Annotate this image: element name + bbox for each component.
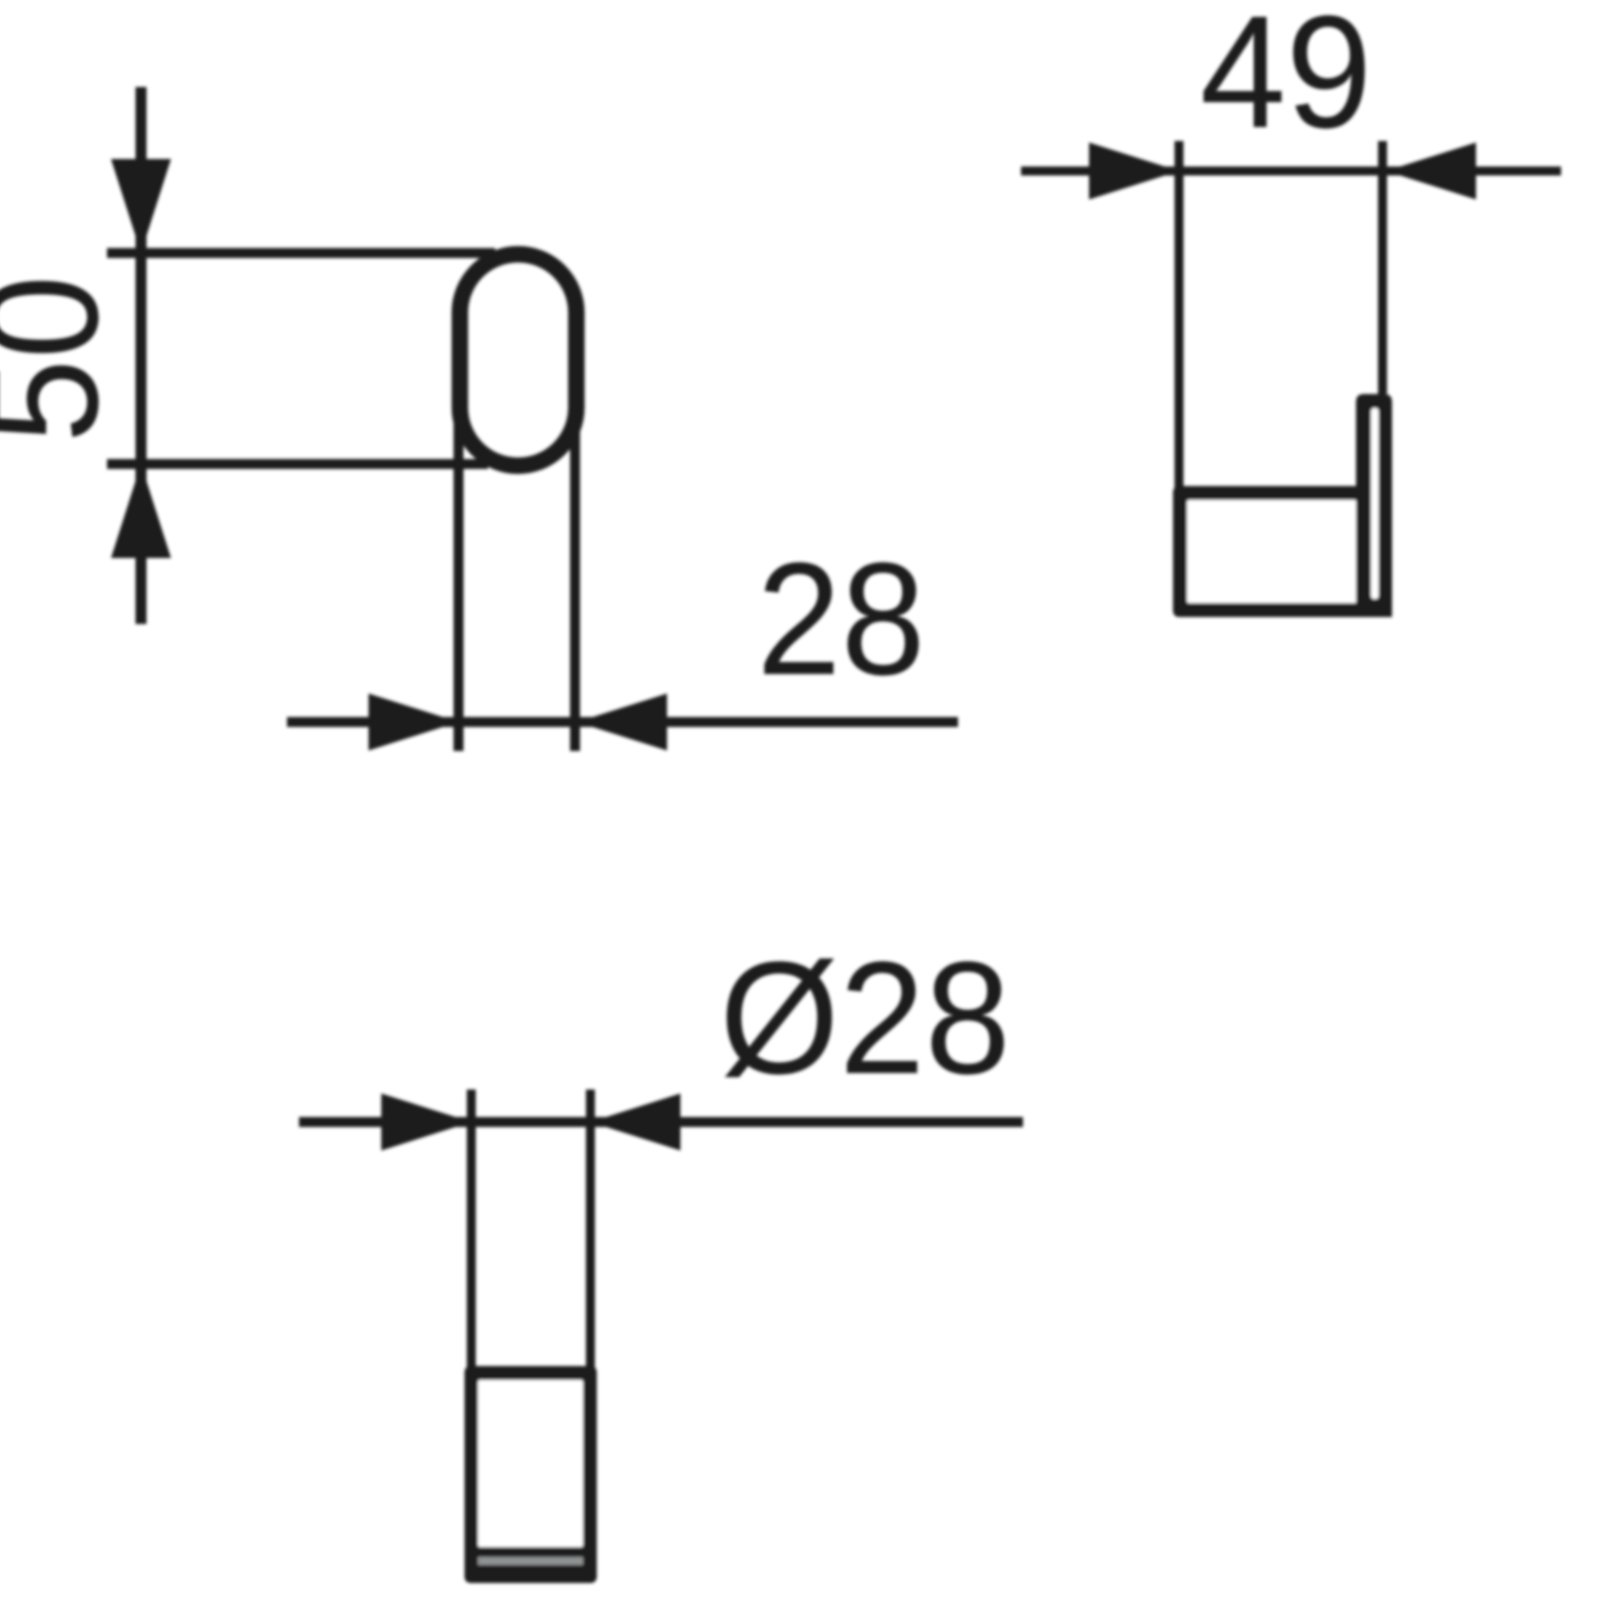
arrowhead left (dim Ø28 right) (590, 1094, 680, 1151)
hook tube outline (bottom view) (465, 1366, 597, 1583)
hook tube seam line (bottom view) (478, 1557, 583, 1565)
dimension line 49 (horizontal) (1021, 167, 1561, 176)
hook upright bar slot (side view) (1371, 408, 1379, 599)
extent line top (dim 50) (107, 248, 495, 258)
extension line right (dim 49) (1378, 141, 1387, 394)
hook tube interior (bottom view) (478, 1380, 583, 1547)
extension line right (dim Ø28) (586, 1090, 595, 1378)
arrowhead down (dim 50 top) (111, 159, 171, 253)
svg-text:28: 28 (757, 529, 926, 708)
arrowhead left (dim 49 right) (1386, 143, 1476, 200)
hook body box (side view) (1173, 486, 1371, 617)
svg-text:Ø28: Ø28 (720, 928, 1011, 1107)
hook body box interior (side view) (1187, 500, 1357, 603)
extension line right (dim 28, front view) (570, 430, 580, 751)
arrowhead left (dim 28 right) (577, 694, 667, 751)
extension line left (dim Ø28) (467, 1090, 476, 1378)
svg-text:50: 50 (0, 275, 131, 443)
hook pill outline (front view) (460, 254, 576, 466)
dimension line 50 (vertical) (136, 87, 147, 624)
extension line left (dim 28, front view) (454, 400, 464, 751)
extent line bottom (dim 50) (107, 459, 488, 469)
arrowhead up (dim 50 bottom) (111, 464, 171, 558)
arrowhead right (dim Ø28 left) (381, 1094, 471, 1151)
dimension line 28 (horizontal) (287, 717, 958, 727)
dimension line Ø28 (horizontal) (299, 1117, 1023, 1127)
svg-text:49: 49 (1200, 0, 1372, 161)
hook upright bar (side view) (1356, 394, 1392, 617)
arrowhead right (dim 28 left) (369, 694, 459, 751)
extension line left (dim 49) (1175, 141, 1184, 489)
arrowhead right (dim 49 left) (1089, 143, 1179, 200)
